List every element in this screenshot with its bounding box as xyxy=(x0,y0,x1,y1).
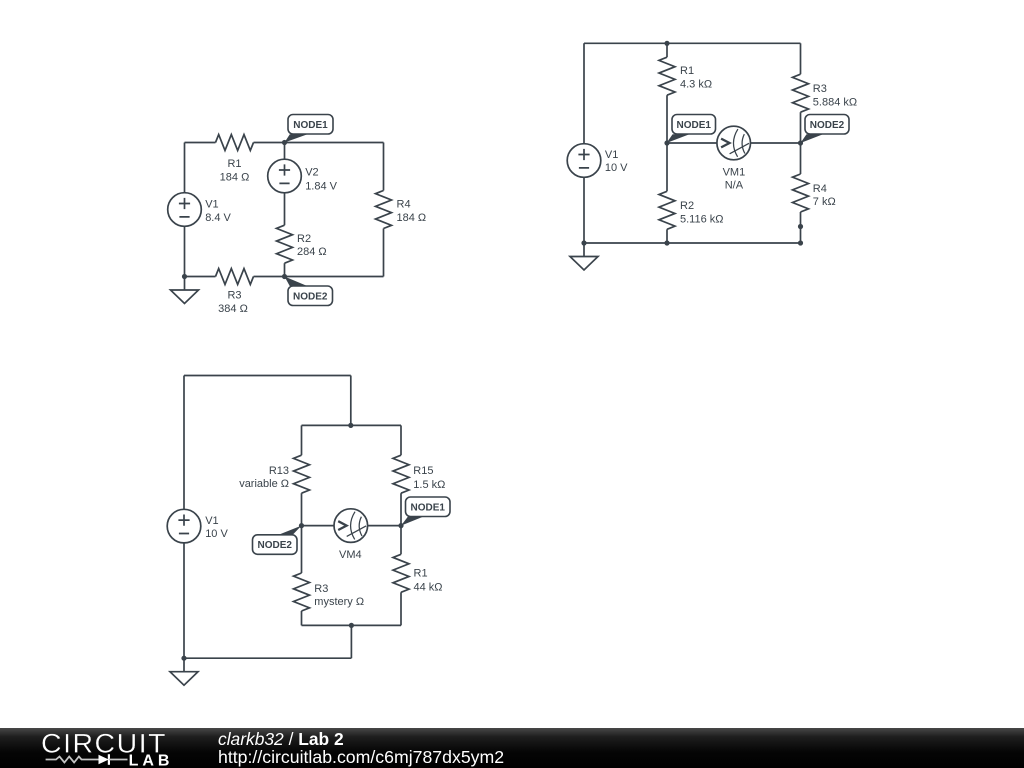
svg-text:NODE2: NODE2 xyxy=(293,291,328,302)
svg-text:184 Ω: 184 Ω xyxy=(397,212,427,224)
resistor R1 xyxy=(216,135,254,151)
label R1 44 kΩ xyxy=(414,568,443,594)
resistor R1 xyxy=(659,57,675,95)
label R2 5.116 kΩ xyxy=(680,200,724,225)
label VM1 N/A xyxy=(723,167,746,192)
label R1 184 Ω xyxy=(220,158,250,183)
wire xyxy=(301,493,303,573)
resistor R13 xyxy=(294,455,310,493)
svg-text:R3: R3 xyxy=(227,290,241,302)
junction xyxy=(282,140,287,145)
svg-text:R4: R4 xyxy=(397,199,411,211)
svg-text:http://circuitlab.com/c6mj787d: http://circuitlab.com/c6mj787dx5ym2 xyxy=(218,747,504,767)
wire xyxy=(301,611,303,625)
junction xyxy=(398,523,403,528)
svg-text:NODE1: NODE1 xyxy=(677,120,712,131)
label V1 10 V xyxy=(605,149,628,174)
svg-text:184 Ω: 184 Ω xyxy=(220,171,250,183)
junction xyxy=(798,140,803,145)
wire xyxy=(666,95,668,191)
svg-text:NODE1: NODE1 xyxy=(411,502,446,513)
wire xyxy=(254,142,384,144)
svg-text:284 Ω: 284 Ω xyxy=(297,246,327,258)
voltage source V1 xyxy=(167,509,201,543)
wire xyxy=(183,376,185,659)
junction xyxy=(181,656,186,661)
wire xyxy=(284,143,286,226)
voltmeter VM1 xyxy=(717,126,751,160)
voltage source V1 xyxy=(567,144,601,178)
resistor R2 xyxy=(659,191,675,229)
svg-text:V1: V1 xyxy=(205,515,218,527)
wire xyxy=(584,42,801,44)
node NODE2 flag xyxy=(285,277,333,306)
resistor R2 xyxy=(277,225,293,263)
svg-text:7 kΩ: 7 kΩ xyxy=(813,196,836,208)
svg-text:44 kΩ: 44 kΩ xyxy=(414,582,443,594)
svg-text:R2: R2 xyxy=(680,200,694,212)
label V2 1.84 V xyxy=(305,167,337,193)
svg-text:R1: R1 xyxy=(414,568,428,580)
wire xyxy=(800,43,802,74)
svg-text:clarkb32 / Lab 2: clarkb32 / Lab 2 xyxy=(218,729,344,749)
node NODE1 flag xyxy=(667,115,716,144)
wire xyxy=(800,212,802,243)
wire xyxy=(302,525,402,527)
svg-text:R4: R4 xyxy=(813,183,827,195)
ground xyxy=(570,243,598,270)
junction xyxy=(798,240,803,245)
svg-text:NODE2: NODE2 xyxy=(258,540,293,551)
wire xyxy=(383,229,385,277)
svg-text:R15: R15 xyxy=(413,465,433,477)
junction xyxy=(182,274,187,279)
wire xyxy=(350,625,352,658)
label R4 184 Ω xyxy=(397,199,427,225)
wire xyxy=(583,43,585,243)
junction xyxy=(348,423,353,428)
svg-text:R13: R13 xyxy=(269,465,289,477)
label R3 mystery Ω xyxy=(314,583,364,608)
svg-text:NODE1: NODE1 xyxy=(293,120,328,131)
junction xyxy=(798,224,803,229)
label R2 284 Ω xyxy=(297,233,327,258)
wire xyxy=(400,592,402,625)
voltage source V1 xyxy=(168,193,202,227)
wire xyxy=(666,229,668,243)
svg-text:NODE2: NODE2 xyxy=(810,120,845,131)
wire xyxy=(284,263,286,276)
label R3 384 Ω xyxy=(218,290,248,315)
junction xyxy=(299,523,304,528)
svg-text:variable Ω: variable Ω xyxy=(239,478,289,490)
label R4 7 kΩ xyxy=(813,183,836,208)
wire xyxy=(350,376,352,426)
svg-text:R1: R1 xyxy=(227,158,241,170)
wire xyxy=(184,657,351,659)
wire xyxy=(800,112,802,174)
wire xyxy=(184,143,186,277)
footer title clarkb32 / Lab 2 xyxy=(200,728,1024,768)
node NODE2 flag xyxy=(253,526,302,555)
logo resistor-diode squiggle xyxy=(46,757,99,763)
wire xyxy=(666,43,668,57)
wire xyxy=(584,242,801,244)
junction xyxy=(664,240,669,245)
ground xyxy=(170,658,198,685)
svg-text:4.3 kΩ: 4.3 kΩ xyxy=(680,79,712,91)
resistor R1 xyxy=(393,554,409,592)
resistor R4 xyxy=(376,191,392,229)
svg-text:10 V: 10 V xyxy=(205,528,228,540)
node NODE1 flag xyxy=(285,115,334,143)
wire xyxy=(184,375,351,377)
wire xyxy=(400,425,402,455)
svg-text:V2: V2 xyxy=(305,167,318,179)
junction xyxy=(282,274,287,279)
svg-text:N/A: N/A xyxy=(725,179,744,191)
wire xyxy=(400,493,402,554)
resistor R15 xyxy=(393,455,409,493)
wire xyxy=(302,624,402,626)
wire xyxy=(301,425,303,455)
wire xyxy=(383,143,385,191)
svg-text:V1: V1 xyxy=(205,199,218,211)
wire xyxy=(185,276,216,278)
svg-text:R2: R2 xyxy=(297,233,311,245)
svg-text:R1: R1 xyxy=(680,65,694,77)
svg-text:R3: R3 xyxy=(813,83,827,95)
wire xyxy=(254,276,384,278)
voltage source V2 xyxy=(268,159,302,193)
svg-text:R3: R3 xyxy=(314,583,328,595)
label R1 4.3 kΩ xyxy=(680,65,712,91)
svg-text:8.4 V: 8.4 V xyxy=(205,212,231,224)
CircuitLab logo xyxy=(0,728,200,768)
ground xyxy=(171,277,199,304)
svg-text:10 V: 10 V xyxy=(605,162,628,174)
svg-text:V1: V1 xyxy=(605,149,618,161)
wire xyxy=(302,424,402,426)
svg-text:VM4: VM4 xyxy=(339,549,362,561)
junction xyxy=(581,240,586,245)
junction xyxy=(664,41,669,46)
node NODE2 flag xyxy=(801,115,850,144)
resistor R4 xyxy=(793,174,809,212)
resistor R3 xyxy=(216,269,254,285)
label R13 variable Ω xyxy=(239,465,289,490)
svg-text:1.5 kΩ: 1.5 kΩ xyxy=(413,479,445,491)
svg-text:1.84 V: 1.84 V xyxy=(305,180,337,192)
junction xyxy=(349,623,354,628)
junction xyxy=(664,140,669,145)
footer bar xyxy=(0,728,1024,768)
label R15 1.5 kΩ xyxy=(413,465,445,491)
voltmeter VM4 xyxy=(334,509,368,543)
label V1 8.4 V xyxy=(205,199,231,225)
label R3 5.884 kΩ xyxy=(813,83,857,108)
label VM4 xyxy=(339,549,362,561)
node NODE1 flag xyxy=(401,497,450,526)
svg-text:384 Ω: 384 Ω xyxy=(218,303,248,315)
svg-text:5.884 kΩ: 5.884 kΩ xyxy=(813,96,857,108)
resistor R3 xyxy=(294,573,310,611)
wire xyxy=(667,142,801,144)
svg-text:mystery Ω: mystery Ω xyxy=(314,596,364,608)
svg-text:VM1: VM1 xyxy=(723,167,746,179)
resistor R3 xyxy=(793,74,809,112)
wire xyxy=(185,142,216,144)
svg-text:5.116 kΩ: 5.116 kΩ xyxy=(680,213,724,225)
svg-text:LAB: LAB xyxy=(129,752,174,768)
label V1 10 V xyxy=(205,515,228,540)
